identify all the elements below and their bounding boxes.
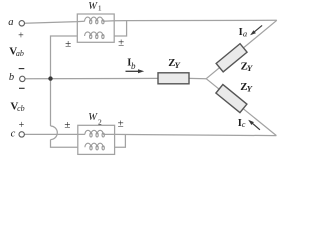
terminal b [20, 76, 25, 81]
wattmeter W2 box [78, 125, 115, 154]
wire c rail right [103, 134, 276, 135]
svg-text:cb: cb [17, 104, 25, 113]
W1 voltage coil [85, 32, 104, 39]
W2 current coil [85, 130, 104, 137]
svg-text:1: 1 [98, 3, 102, 12]
svg-text:W: W [88, 112, 98, 123]
load impedance ZY (phase b, horizontal) [158, 73, 189, 84]
W2 voltage coil [85, 143, 104, 150]
wire bus b down to hop [50, 79, 52, 126]
svg-text:+: + [19, 120, 25, 131]
svg-text:W: W [88, 1, 98, 12]
wire W2 voltage-coil right lead up to c rail [115, 135, 126, 148]
load impedance ZY (phase c, lower diagonal) [216, 85, 247, 113]
svg-text:b: b [9, 72, 14, 83]
load impedance ZY (phase a, upper diagonal) [216, 44, 247, 72]
wire diagonal line a (top-right corner to node) [206, 20, 277, 78]
svg-text:c: c [242, 120, 246, 129]
svg-text:a: a [8, 17, 13, 28]
svg-text:±: ± [65, 38, 71, 50]
wire diagonal line c (bottom-right corner to node) [206, 79, 276, 136]
wire b rail [25, 77, 158, 79]
wire c rail left [25, 133, 85, 135]
wire b rail right of Z box to node [189, 77, 206, 79]
svg-text:a: a [243, 29, 247, 39]
terminal a [19, 21, 24, 26]
svg-text:c: c [11, 128, 16, 139]
svg-text:ab: ab [16, 49, 24, 58]
terminal c [19, 132, 24, 137]
current arrow Ib [126, 69, 145, 73]
wire hop over c rail [51, 126, 58, 140]
wire bus hop to W2 voltage coil [51, 140, 78, 148]
current arrow Ic [248, 120, 260, 130]
svg-text:2: 2 [98, 117, 102, 126]
svg-text:±: ± [64, 119, 70, 131]
svg-text:+: + [18, 30, 24, 41]
W1 current coil [85, 17, 104, 24]
svg-text:±: ± [118, 36, 124, 48]
junction dot at b [48, 76, 52, 80]
svg-text:±: ± [118, 118, 124, 130]
wire W1 voltage-coil left lead + bus down to b [51, 36, 78, 79]
current arrow Ia [250, 25, 262, 35]
wattmeter W1 box [77, 14, 114, 42]
wire top rail (line a) [25, 21, 85, 23]
wire W1 voltage-coil right lead up to a rail [114, 21, 126, 36]
minus sign of Vab [19, 68, 25, 70]
minus sign of Vcb [19, 87, 25, 89]
svg-text:b: b [131, 61, 136, 71]
